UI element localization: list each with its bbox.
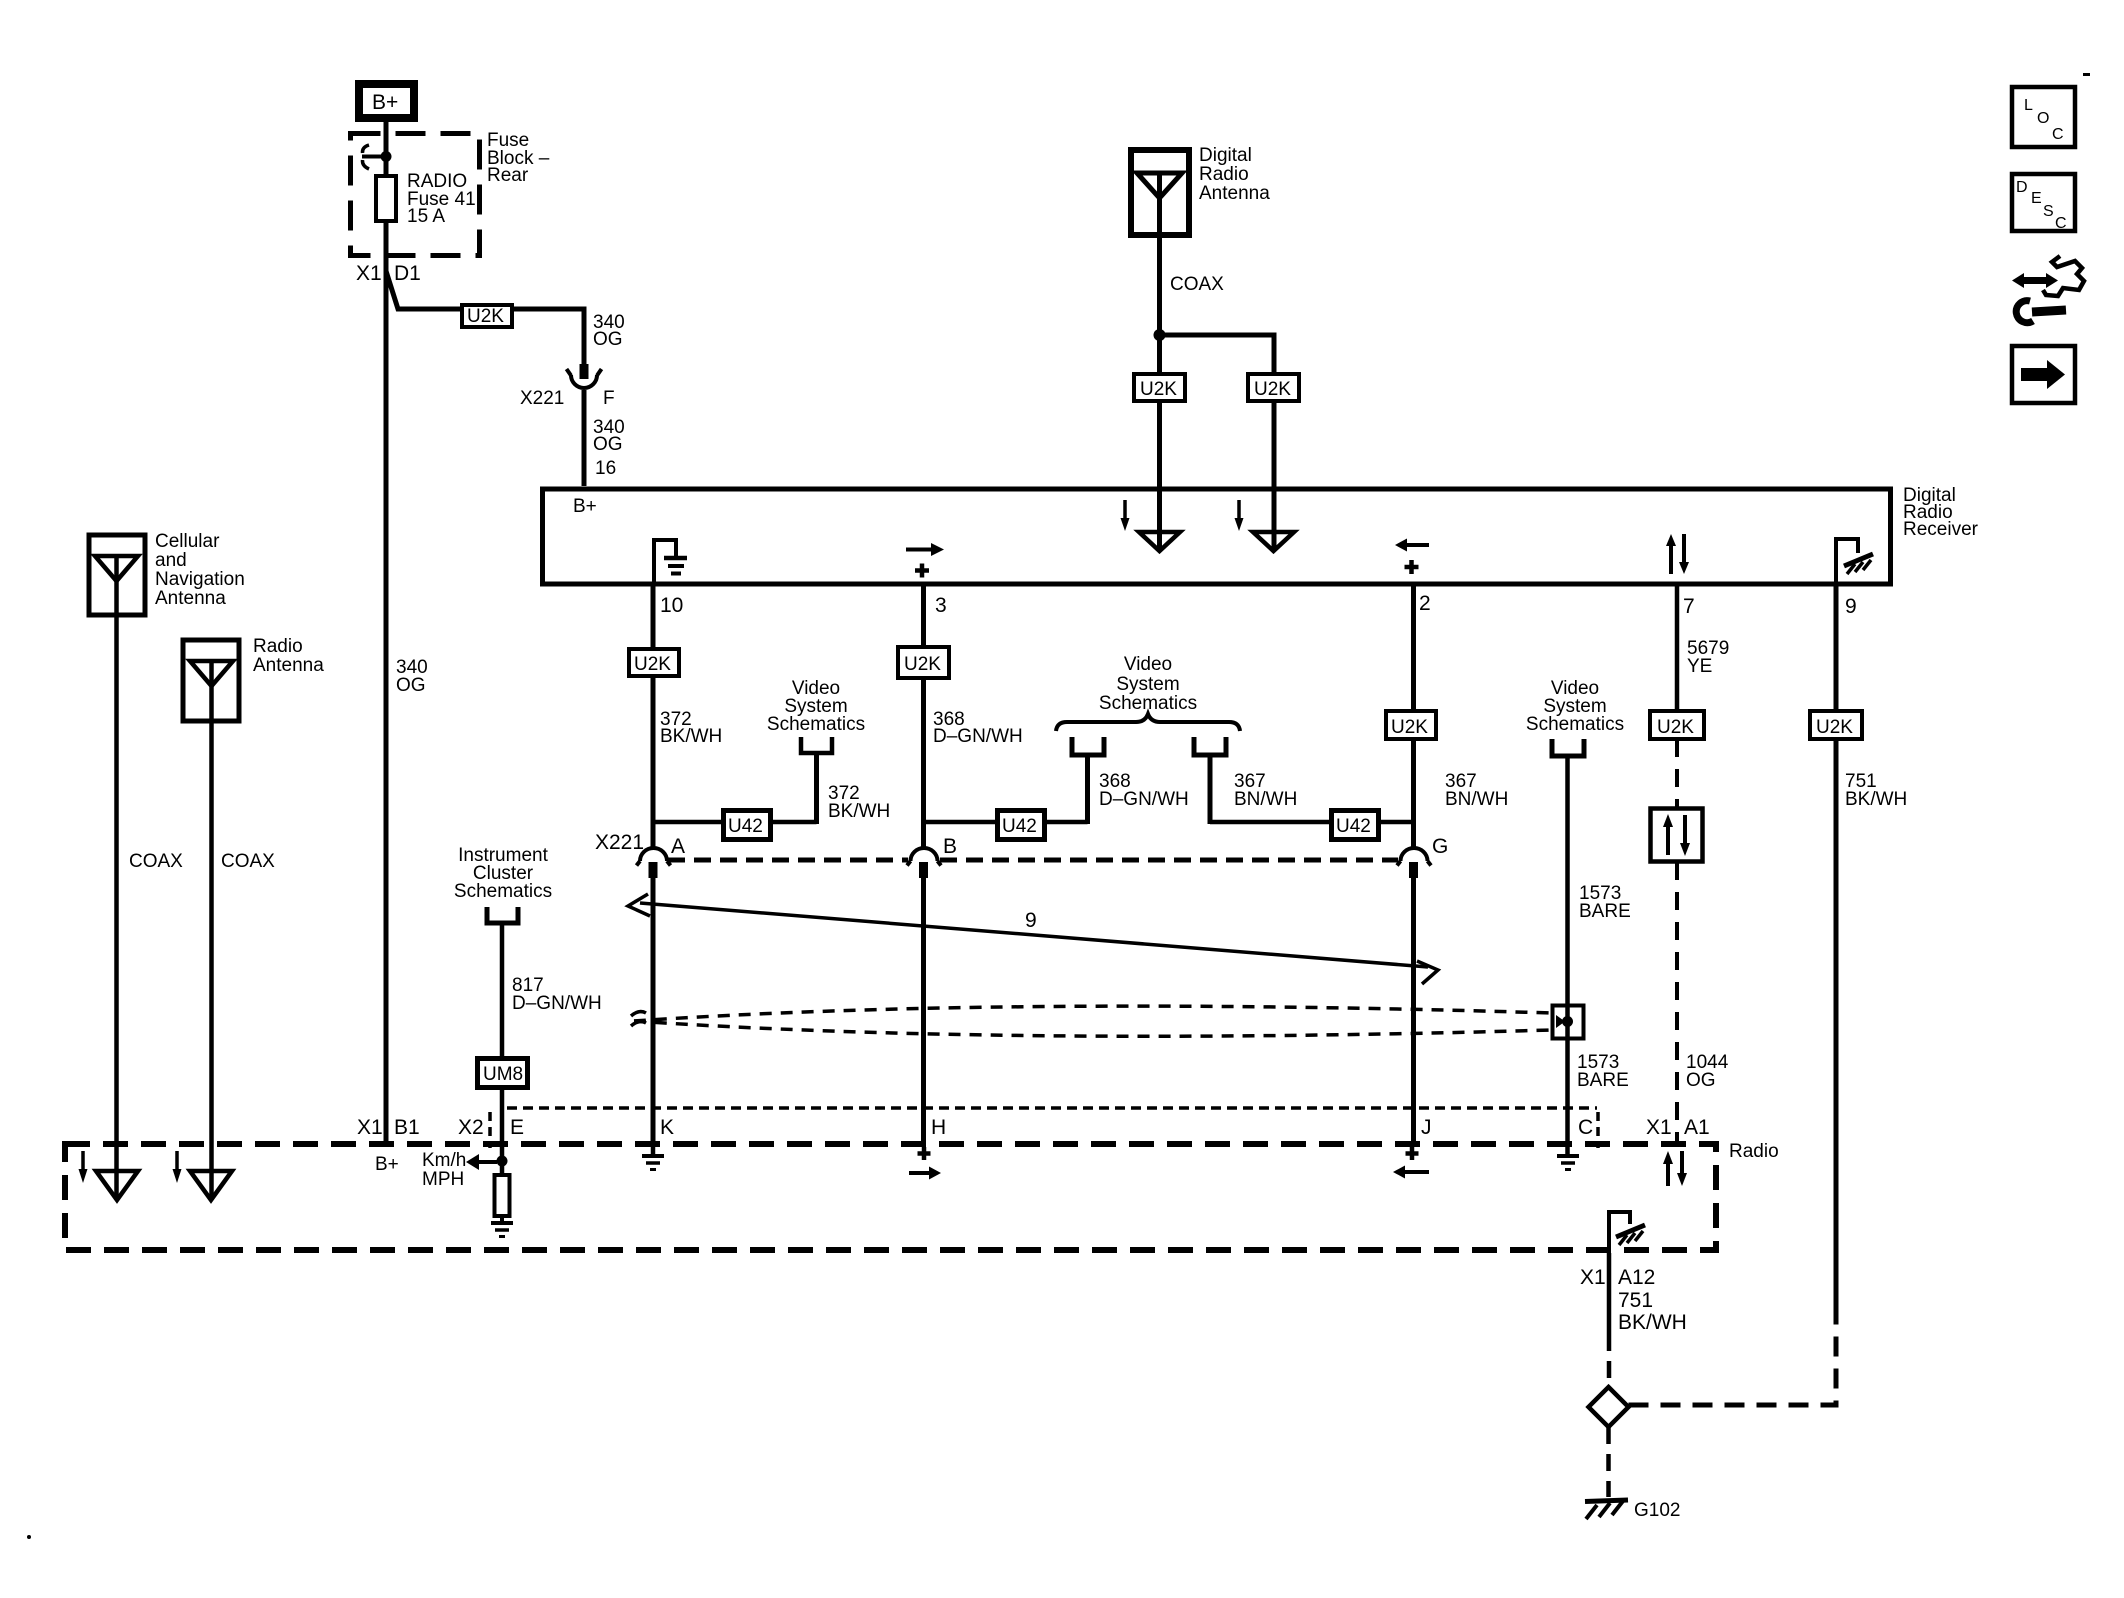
svg-text:751: 751: [1618, 1289, 1653, 1312]
wire: X1 D1 branch to U2K: [386, 271, 460, 309]
in-line harness U42 (3): [1332, 811, 1379, 840]
shield drain junction box: [1553, 1006, 1584, 1039]
wire B to radio H: [921, 878, 926, 1141]
fuse block rear dashed box: [351, 134, 480, 256]
svg-text:U42: U42: [728, 816, 763, 837]
label 368 D-GN/WH (upper): [933, 709, 1023, 747]
svg-text:9: 9: [1025, 909, 1037, 932]
off-page bracket (left video): [801, 737, 832, 753]
svg-text:F: F: [603, 388, 615, 409]
wire G to radio J: [1411, 878, 1416, 1141]
in-line harness U2K (fuse branch): [462, 305, 512, 327]
in-line harness U2K (pin 3): [898, 647, 949, 678]
pin 9 chassis ground symbol inside receiver: [1836, 539, 1873, 583]
label 817 D-GN/WH: [512, 975, 602, 1014]
svg-text:A: A: [671, 835, 685, 858]
labels X221 F: [520, 388, 615, 409]
svg-text:Antenna: Antenna: [155, 588, 226, 609]
wire pin 3 to U2K: [921, 585, 926, 646]
svg-text:BK/WH: BK/WH: [1845, 789, 1907, 810]
svg-text:E: E: [510, 1116, 524, 1139]
label Instrument Cluster Schematics: [454, 845, 552, 902]
connector labels X1 D1: [356, 262, 421, 285]
off-page bracket (368): [1072, 737, 1104, 755]
svg-text:U2K: U2K: [904, 654, 941, 675]
svg-text:and: and: [155, 550, 187, 571]
svg-text:X1: X1: [1646, 1116, 1672, 1139]
svg-text:System: System: [1116, 674, 1179, 695]
in-line harness U2K (coax right): [1248, 374, 1299, 401]
dashed wire arrow box to radio A1: [1675, 862, 1679, 1141]
label 368 D-GN/WH (bracket): [1099, 771, 1189, 810]
svg-text:15 A: 15 A: [407, 206, 445, 227]
wire coax branch: [1160, 335, 1275, 372]
svg-text:BK/WH: BK/WH: [1618, 1311, 1687, 1334]
svg-text:J: J: [1421, 1116, 1432, 1139]
svg-text:X221: X221: [520, 388, 564, 409]
connector X221 A symbol: [637, 848, 671, 878]
svg-text:Navigation: Navigation: [155, 569, 245, 590]
in-line harness U2K (pin 2): [1386, 711, 1436, 739]
node at E: [497, 1156, 508, 1167]
svg-text:Antenna: Antenna: [253, 655, 324, 676]
dashed wire splice to 751: [1629, 1322, 1837, 1405]
svg-text:X2: X2: [458, 1116, 484, 1139]
svg-text:B+: B+: [372, 91, 398, 114]
cellular and navigation antenna box: [89, 535, 145, 615]
svg-text:MPH: MPH: [422, 1169, 464, 1190]
shield twist mark: [631, 1012, 646, 1026]
svg-text:COAX: COAX: [1170, 274, 1224, 295]
bidirectional arrows box: [1651, 809, 1703, 862]
wire resistor to ground: [500, 1216, 504, 1221]
svg-text:Cellular: Cellular: [155, 531, 220, 552]
svg-text:U2K: U2K: [467, 306, 504, 327]
svg-text:C: C: [2055, 215, 2067, 232]
svg-text:16: 16: [595, 458, 616, 479]
svg-text:U42: U42: [1002, 816, 1037, 837]
svg-text:D–GN/WH: D–GN/WH: [512, 993, 602, 1014]
svg-text:BN/WH: BN/WH: [1445, 789, 1508, 810]
svg-text:U2K: U2K: [1657, 717, 1694, 738]
off-page bracket (367): [1194, 737, 1226, 755]
svg-text:G102: G102: [1634, 1500, 1680, 1521]
label 340 OG (B1 wire): [396, 657, 428, 696]
radio dashed box: [65, 1144, 1716, 1250]
svg-text:D1: D1: [394, 262, 421, 285]
svg-text:O: O: [2037, 110, 2049, 127]
wire 817 to UM8: [500, 923, 505, 1058]
label 1573 BARE (lower): [1577, 1052, 1629, 1091]
power symbol B+: [359, 84, 414, 118]
svg-text:X1: X1: [357, 1116, 383, 1139]
label 340 OG (upper): [593, 312, 625, 350]
in-line harness U2K (pin 9): [1810, 711, 1862, 739]
svg-text:D–GN/WH: D–GN/WH: [933, 726, 1023, 747]
svg-text:D: D: [2016, 179, 2028, 196]
svg-text:Digital: Digital: [1199, 145, 1252, 166]
icon box LOC: [2012, 87, 2075, 147]
in-line harness U2K (pin 10): [629, 649, 679, 676]
junction node: [1154, 329, 1166, 341]
label 367 BN/WH (upper): [1445, 771, 1508, 810]
label RADIO Fuse 41 15 A: [407, 171, 476, 227]
svg-text:Radio: Radio: [1729, 1141, 1779, 1162]
pin number labels: [660, 592, 1857, 618]
icon arrows and wrench: [2012, 256, 2084, 323]
dashed wire splice to G102: [1606, 1427, 1611, 1497]
twisted pair callout line 9: [628, 894, 1438, 984]
svg-text:C: C: [1578, 1116, 1593, 1139]
svg-text:10: 10: [660, 594, 683, 617]
pin 3 output arrow symbol: [906, 543, 944, 578]
svg-text:S: S: [2043, 203, 2054, 220]
svg-text:U2K: U2K: [634, 654, 671, 675]
connector tick C: [1596, 1112, 1600, 1148]
connector tick X2: [488, 1112, 492, 1148]
svg-text:BK/WH: BK/WH: [828, 801, 890, 822]
svg-text:Schematics: Schematics: [1526, 714, 1624, 735]
svg-text:A1: A1: [1684, 1116, 1710, 1139]
label 372 BK/WH (bracket): [828, 783, 890, 822]
wire cellular coax: [114, 556, 119, 1200]
fuse RADIO Fuse 41 15 A: [376, 176, 396, 221]
pin 2 input arrow symbol: [1395, 539, 1429, 575]
wire 1573 bare drain: [1565, 756, 1570, 1141]
svg-text:U2K: U2K: [1254, 379, 1291, 400]
H input arrow symbol: [909, 1147, 941, 1180]
label Digital Radio Antenna: [1199, 145, 1270, 204]
wire pin 9 751 BK/WH: [1834, 585, 1839, 1322]
X221 dashed connector line: [668, 858, 1398, 863]
stray tick top right: [2083, 73, 2090, 76]
ground symbol at C: [1557, 1141, 1579, 1170]
receiver antenna symbol left: [1121, 500, 1181, 551]
svg-text:Rear: Rear: [487, 165, 529, 186]
wire U2K to X221 G: [1411, 739, 1416, 849]
wire: B+ feed vertical 340 OG: [384, 118, 389, 1141]
label 340 OG 16 (lower): [593, 417, 625, 479]
brace over video wires: [1056, 714, 1240, 731]
wire pin 10 to U2K: [651, 585, 656, 648]
wire U2K to receiver antenna input right: [1272, 401, 1277, 551]
wire UM8 to radio E: [500, 1088, 505, 1173]
Km/h arrow: [466, 1154, 497, 1170]
svg-text:3: 3: [935, 594, 947, 617]
svg-text:BARE: BARE: [1577, 1070, 1629, 1091]
label Digital Radio Receiver: [1903, 485, 1979, 540]
A1 bidirectional arrows symbol: [1663, 1151, 1687, 1186]
label Video System Schematics (left): [767, 678, 865, 735]
wire F to receiver pin 16: [582, 390, 587, 486]
wire U2K to X221 F: [514, 309, 584, 364]
svg-text:U42: U42: [1336, 816, 1371, 837]
in-line harness U2K (coax left): [1134, 374, 1185, 401]
svg-text:OG: OG: [396, 675, 426, 696]
in-line option UM8: [478, 1059, 528, 1088]
svg-text:COAX: COAX: [129, 851, 183, 872]
svg-text:Km/h: Km/h: [422, 1150, 466, 1171]
off-page bracket (817): [487, 907, 518, 923]
svg-text:COAX: COAX: [221, 851, 275, 872]
label 1573 BARE (upper): [1579, 883, 1631, 922]
svg-text:OG: OG: [1686, 1070, 1716, 1091]
label 372 BK/WH (upper): [660, 709, 722, 747]
fuse clip contact: [362, 145, 392, 169]
stray dot bottom left: [27, 1535, 31, 1539]
label Fuse Block - Rear: [487, 130, 550, 186]
wire radio X1 A12: [1607, 1253, 1612, 1334]
wire A to U42 horizontal: [653, 820, 817, 825]
svg-text:A12: A12: [1618, 1266, 1655, 1289]
label 1044 OG: [1686, 1052, 1729, 1091]
receiver box Digital Radio Receiver: [543, 489, 1891, 584]
svg-text:U2K: U2K: [1391, 717, 1428, 738]
svg-text:BK/WH: BK/WH: [660, 726, 722, 747]
receiver antenna symbol right: [1235, 500, 1295, 551]
wire bracket 368 down: [1085, 755, 1090, 824]
connector X221 F symbol: [567, 364, 602, 388]
in-line harness U42 (1): [724, 811, 771, 840]
resistor element at E: [495, 1175, 510, 1216]
label Video System Schematics (middle): [1099, 654, 1197, 714]
svg-text:U2K: U2K: [1140, 379, 1177, 400]
wire U2K to receiver antenna input left: [1157, 401, 1162, 551]
svg-text:L: L: [2024, 97, 2033, 114]
svg-text:BARE: BARE: [1579, 901, 1631, 922]
splice diamond: [1589, 1387, 1629, 1427]
label Radio Antenna: [253, 636, 324, 676]
svg-text:Radio: Radio: [1199, 164, 1249, 185]
svg-text:Video: Video: [1124, 654, 1172, 675]
antenna symbol in radio (cellular): [79, 1151, 139, 1200]
dashed wire U2K to arrow box: [1675, 739, 1679, 808]
svg-text:C: C: [2052, 126, 2064, 143]
svg-text:E: E: [2031, 190, 2042, 207]
pin 10 ground symbol inside receiver: [654, 540, 687, 583]
shield drain dashed lens: [634, 1006, 1551, 1036]
svg-text:7: 7: [1683, 595, 1695, 618]
svg-text:9: 9: [1845, 595, 1857, 618]
wire coax from antenna: [1157, 238, 1162, 372]
ground symbol at K: [642, 1141, 664, 1170]
digital radio antenna box: [1131, 150, 1189, 238]
wire bracket to U42 junction: [814, 753, 819, 824]
wire A to radio K: [651, 878, 656, 1141]
svg-text:OG: OG: [593, 329, 623, 350]
svg-text:D–GN/WH: D–GN/WH: [1099, 789, 1189, 810]
svg-text:B1: B1: [394, 1116, 420, 1139]
dashed wire A12 to splice: [1607, 1334, 1612, 1387]
wire bracket 367 down: [1208, 755, 1213, 824]
svg-text:Antenna: Antenna: [1199, 183, 1270, 204]
svg-text:Schematics: Schematics: [767, 714, 865, 735]
svg-text:Receiver: Receiver: [1903, 519, 1979, 540]
wire radio coax: [209, 661, 214, 1200]
svg-text:B: B: [943, 835, 957, 858]
wire B to U42 horizontal: [924, 820, 1088, 825]
off-page bracket (1573): [1552, 739, 1584, 756]
svg-text:X1: X1: [356, 262, 382, 285]
chassis ground symbol inside radio: [1609, 1212, 1645, 1253]
labels X1 A12: [1580, 1266, 1655, 1289]
svg-text:K: K: [660, 1116, 674, 1139]
ground symbol at E: [491, 1223, 513, 1237]
svg-text:G: G: [1432, 835, 1448, 858]
label 5679 YE: [1687, 638, 1729, 677]
connector X221 G symbol: [1397, 848, 1431, 878]
svg-text:X1: X1: [1580, 1266, 1606, 1289]
radio antenna box: [183, 640, 239, 721]
label 751 BK/WH (A12): [1618, 1289, 1687, 1334]
fine dashed connector row: [507, 1106, 1597, 1110]
label 751 BK/WH (right): [1845, 771, 1907, 810]
svg-text:UM8: UM8: [483, 1064, 523, 1085]
wire U2K to X221 B: [921, 678, 926, 849]
label Video System Schematics (right): [1526, 678, 1624, 735]
wire pin 7 to U2K: [1675, 585, 1680, 711]
svg-text:U2K: U2K: [1816, 717, 1853, 738]
in-line harness U42 (2): [998, 811, 1045, 840]
icon box DESC: [2012, 174, 2075, 232]
J output arrow symbol: [1393, 1147, 1429, 1179]
label Km/h MPH: [422, 1150, 466, 1190]
in-line harness U2K (pin 7): [1650, 711, 1704, 739]
ground G102 symbol: [1585, 1500, 1628, 1519]
svg-text:X221: X221: [595, 831, 644, 854]
svg-text:B+: B+: [375, 1154, 399, 1175]
label Cellular and Navigation Antenna: [155, 531, 245, 609]
wire U2K to X221 A: [651, 676, 656, 849]
label 367 BN/WH (bracket): [1234, 771, 1297, 810]
wire pin 2 to U2K: [1411, 585, 1416, 710]
icon box right arrow: [2012, 346, 2075, 403]
svg-text:B+: B+: [573, 496, 597, 517]
labels X221 A: [595, 831, 685, 858]
antenna symbol in radio (radio): [173, 1151, 233, 1200]
svg-text:OG: OG: [593, 434, 623, 455]
svg-text:Schematics: Schematics: [454, 881, 552, 902]
pin 7 bidirectional arrows symbol: [1666, 534, 1689, 574]
wire 367 to U42 to G: [1210, 820, 1414, 825]
svg-text:YE: YE: [1687, 656, 1712, 677]
svg-text:H: H: [931, 1116, 946, 1139]
svg-text:2: 2: [1419, 592, 1431, 615]
bottom pin labels: [357, 1116, 1710, 1139]
svg-text:Radio: Radio: [253, 636, 303, 657]
svg-text:BN/WH: BN/WH: [1234, 789, 1297, 810]
connector X221 B symbol: [907, 848, 941, 878]
